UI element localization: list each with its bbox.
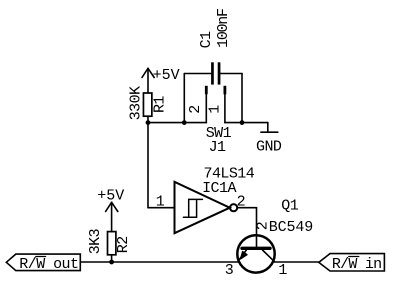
svg-text:+5V: +5V xyxy=(97,188,124,205)
net flag R/W out xyxy=(6,254,80,271)
base lead xyxy=(256,235,258,247)
svg-text:2: 2 xyxy=(254,222,271,230)
overline over W (out) xyxy=(36,256,46,258)
wire C1 right horizontal xyxy=(220,73,242,75)
collector lead xyxy=(263,250,275,262)
svg-text:1: 1 xyxy=(156,193,165,210)
svg-text:C1: C1 xyxy=(198,31,215,48)
junction dot at C1 right xyxy=(240,120,245,125)
svg-text:J1: J1 xyxy=(209,139,226,156)
svg-text:GND: GND xyxy=(256,138,282,155)
svg-text:IC1A: IC1A xyxy=(202,180,236,197)
wire gate input xyxy=(148,207,175,209)
net flag R/W in xyxy=(319,254,385,271)
svg-text:BC549: BC549 xyxy=(269,219,313,236)
junction dot below R2 xyxy=(109,260,114,265)
overline over W (in) xyxy=(349,256,359,258)
wire from R/W out flag to Q1 emitter xyxy=(80,261,237,263)
junction dot at R1 bus xyxy=(146,120,151,125)
svg-text:R2: R2 xyxy=(115,236,132,253)
inverter IC1A 74LS14 xyxy=(175,182,238,233)
svg-text:+5V: +5V xyxy=(153,67,180,84)
svg-text:3: 3 xyxy=(225,262,234,279)
wire from Q1 collector to R/W in flag xyxy=(275,261,319,263)
wire C1 left horizontal xyxy=(184,73,211,75)
svg-text:2: 2 xyxy=(237,193,245,210)
emitter lead with arrow xyxy=(238,250,246,261)
resistor R1 xyxy=(143,93,151,116)
transistor Q1 BC549 xyxy=(237,235,274,273)
base bar xyxy=(242,247,270,250)
connector SW1 pin 1 xyxy=(224,86,227,123)
wire vertical down to gate input xyxy=(147,123,149,208)
wire bus right segment (SW1 pin1 to GND drop) xyxy=(225,122,268,124)
svg-text:2: 2 xyxy=(187,105,204,113)
svg-text:Q1: Q1 xyxy=(281,198,298,215)
svg-text:330K: 330K xyxy=(127,86,144,120)
svg-text:1: 1 xyxy=(207,105,224,114)
wire R2 bottom lead xyxy=(111,255,113,262)
resistor R2 xyxy=(108,232,116,255)
svg-text:3K3: 3K3 xyxy=(87,228,104,254)
svg-text:R1: R1 xyxy=(152,96,169,113)
wire C1 right vertical xyxy=(241,74,243,123)
connector SW1 pin 2 xyxy=(205,86,208,123)
ground GND xyxy=(261,123,278,133)
wire gate output xyxy=(237,208,256,235)
wire bus left segment (R1 to SW1 pin2) xyxy=(148,122,206,124)
+5V supply arrow above R1 xyxy=(142,68,154,93)
+5V supply arrow above R2 xyxy=(106,202,118,231)
junction dot at C1 left xyxy=(182,120,187,125)
svg-text:R/W in: R/W in xyxy=(332,256,382,273)
svg-text:R/W out: R/W out xyxy=(19,256,78,273)
wire C1 left vertical xyxy=(183,74,185,123)
wire R1 bottom lead xyxy=(147,117,149,123)
hysteresis symbol xyxy=(183,199,202,217)
capacitor C1 xyxy=(211,62,220,84)
svg-text:100nF: 100nF xyxy=(215,9,232,48)
svg-text:1: 1 xyxy=(278,262,287,279)
